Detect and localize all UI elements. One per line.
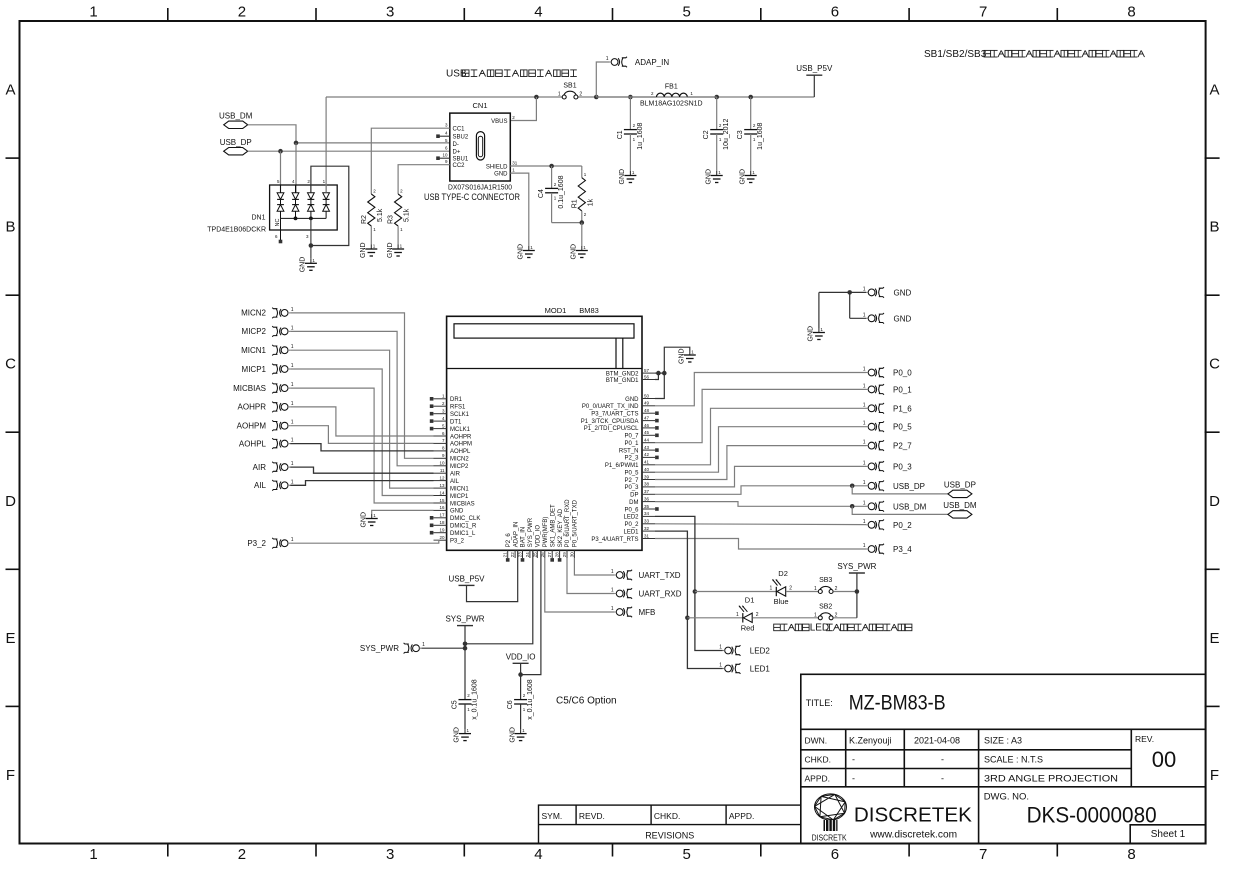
svg-text:1: 1 — [291, 401, 294, 407]
wire GND pin16 — [372, 510, 434, 514]
svg-text:A: A — [5, 82, 15, 99]
capacitor C6 — [514, 699, 527, 701]
svg-text:REVD.: REVD. — [579, 811, 605, 821]
svg-text:SBU2: SBU2 — [453, 135, 469, 141]
connector AOHPL — [272, 438, 288, 449]
svg-text:NC: NC — [275, 219, 281, 227]
svg-text:2: 2 — [579, 92, 582, 98]
svg-text:RST_N: RST_N — [619, 448, 639, 454]
wire USB_DP — [655, 486, 866, 495]
svg-text:1: 1 — [863, 367, 866, 373]
svg-text:18: 18 — [439, 520, 445, 525]
wire AOHPL to pin8 — [290, 444, 433, 451]
svg-text:41: 41 — [644, 460, 650, 465]
module MOD1 BM83 — [447, 316, 642, 550]
ground GND connectors — [818, 328, 820, 333]
svg-text:CN1: CN1 — [472, 101, 487, 110]
svg-text:1: 1 — [606, 56, 609, 62]
svg-text:F: F — [6, 767, 15, 784]
svg-text:2: 2 — [756, 612, 759, 618]
connector AIR — [272, 462, 288, 473]
svg-text:MICBIAS: MICBIAS — [450, 501, 475, 507]
svg-text:P0_5: P0_5 — [893, 423, 912, 432]
wire MICP2 to pin10 — [290, 331, 433, 465]
svg-text:1: 1 — [719, 645, 722, 651]
pin SBU2 no-connect stub — [440, 135, 450, 137]
connector MFB — [616, 607, 632, 618]
svg-text:39: 39 — [644, 474, 650, 479]
svg-text:00: 00 — [1152, 747, 1176, 772]
node VDD_IO junction — [518, 672, 523, 677]
svg-text:P0_0/UART_TX_IND: P0_0/UART_TX_IND — [582, 404, 639, 410]
wire USB_P5V to ADAP_IN pin — [467, 550, 518, 601]
svg-text:P0_3: P0_3 — [624, 485, 639, 491]
power flag VDD_IO — [513, 662, 529, 664]
svg-text:C4: C4 — [538, 189, 545, 198]
svg-text:46: 46 — [644, 423, 650, 428]
wire GND connectors — [819, 291, 866, 293]
wire CN1 GND pin — [510, 173, 529, 246]
wire SHIELD net — [510, 165, 582, 167]
ground C5 — [464, 729, 466, 734]
svg-text:DMIC1_L: DMIC1_L — [450, 531, 476, 537]
svg-text:1: 1 — [291, 382, 294, 388]
jumper SB1 — [562, 95, 566, 99]
svg-text:DWG. NO.: DWG. NO. — [984, 792, 1029, 803]
svg-text:48: 48 — [644, 408, 650, 413]
svg-text:1: 1 — [736, 612, 739, 618]
svg-text:8: 8 — [1127, 4, 1135, 21]
svg-text:4: 4 — [534, 846, 542, 863]
node C2 junction — [714, 95, 719, 100]
connector LED2 — [725, 645, 741, 656]
svg-text:P1_6: P1_6 — [893, 404, 912, 413]
svg-text:2: 2 — [238, 4, 246, 21]
node SYS_PWR junction B — [463, 646, 468, 651]
svg-text:28: 28 — [555, 552, 560, 558]
node LED1 junction — [685, 616, 690, 621]
svg-text:R1: R1 — [571, 199, 578, 208]
net flag USB_DM — [224, 121, 248, 128]
svg-text:6: 6 — [831, 4, 839, 21]
wire MICN2 to pin9 — [290, 313, 433, 458]
svg-text:P0_6/UART_RXD: P0_6/UART_RXD — [565, 499, 571, 548]
svg-text:50: 50 — [644, 393, 650, 398]
svg-text:C: C — [1209, 356, 1220, 373]
svg-text:BTM_GND1: BTM_GND1 — [606, 378, 639, 384]
svg-text:1: 1 — [814, 612, 817, 618]
svg-text:1: 1 — [89, 4, 97, 21]
svg-text:11: 11 — [440, 468, 445, 473]
wire USB_DM to DN1 — [295, 143, 297, 193]
resistor R2 — [371, 128, 450, 194]
svg-text:GND: GND — [894, 288, 912, 297]
net flag USB_DP right — [948, 490, 972, 497]
svg-text:DT1: DT1 — [450, 419, 462, 425]
connector USB_DP — [868, 481, 884, 492]
svg-text:AOHPL: AOHPL — [450, 449, 471, 455]
svg-text:DMIC_CLK: DMIC_CLK — [450, 516, 480, 522]
svg-text:P0_5/UART_TXD: P0_5/UART_TXD — [573, 499, 579, 547]
svg-text:20: 20 — [439, 535, 445, 540]
svg-text:P2_3: P2_3 — [624, 456, 639, 462]
svg-text:DM: DM — [629, 500, 638, 506]
TVS diode pair ch4 — [323, 193, 330, 200]
svg-text:BLM18AG102SN1D: BLM18AG102SN1D — [640, 101, 703, 108]
ground CN1 — [528, 246, 530, 251]
svg-text:7: 7 — [979, 846, 987, 863]
ground C1 — [629, 171, 631, 176]
resistor R3 — [398, 165, 450, 194]
node BTM_GND junction A — [656, 371, 661, 376]
wire AOHPR to pin6 — [290, 407, 433, 436]
module bottom pins — [507, 550, 509, 558]
wire USB_DM — [655, 502, 866, 507]
svg-text:LED1: LED1 — [750, 665, 771, 674]
svg-text:D2: D2 — [778, 569, 788, 578]
svg-text:AIR: AIR — [450, 472, 461, 478]
node VBUS junction — [534, 95, 539, 100]
svg-text:1k: 1k — [587, 198, 594, 206]
svg-text:VBUS: VBUS — [491, 119, 507, 125]
svg-text:USB_DM: USB_DM — [219, 112, 253, 121]
ground R1 — [581, 246, 583, 251]
svg-text:DISCRETEK: DISCRETEK — [854, 804, 972, 827]
power flag SYS_PWR LED — [849, 572, 865, 574]
svg-text:3: 3 — [386, 846, 394, 863]
svg-text:MICBIAS: MICBIAS — [233, 384, 266, 393]
svg-text:P3_2: P3_2 — [450, 539, 465, 545]
svg-text:R3: R3 — [388, 215, 395, 224]
svg-text:SYS_PWR: SYS_PWR — [837, 562, 876, 571]
svg-text:1: 1 — [863, 480, 866, 486]
wire VBUS to rail — [510, 97, 536, 121]
svg-text:D-: D- — [453, 142, 459, 148]
svg-text:APPD.: APPD. — [805, 774, 831, 784]
svg-text:LED2: LED2 — [623, 515, 639, 521]
svg-text:SYS_PWR: SYS_PWR — [528, 517, 534, 547]
wire AOHPM to pin7 — [290, 426, 433, 444]
svg-text:27: 27 — [547, 552, 552, 558]
svg-text:42: 42 — [644, 452, 650, 457]
svg-text:1: 1 — [863, 312, 866, 318]
svg-text:1: 1 — [291, 537, 294, 543]
node DN1 junction A — [294, 217, 298, 221]
wire P0_0 — [655, 373, 866, 406]
svg-text:12: 12 — [439, 475, 445, 480]
svg-text:1: 1 — [863, 543, 866, 549]
svg-text:MICN1: MICN1 — [450, 486, 469, 492]
node USB_DM junction — [850, 504, 855, 509]
svg-text:SB1: SB1 — [563, 83, 576, 90]
svg-text:GND: GND — [619, 169, 626, 185]
svg-text:GND: GND — [494, 172, 508, 178]
node USB_DP junction — [850, 484, 855, 489]
svg-text:MICP1: MICP1 — [450, 494, 469, 500]
svg-text:AOHPM: AOHPM — [237, 422, 267, 431]
title block — [801, 674, 1206, 843]
svg-text:2021-04-08: 2021-04-08 — [914, 736, 960, 746]
svg-text:SK1_AMB_DET: SK1_AMB_DET — [550, 504, 556, 547]
wire P0_2 — [655, 523, 866, 526]
svg-text:SYM.: SYM. — [542, 811, 563, 821]
svg-text:31: 31 — [512, 161, 518, 166]
node C4 junction — [549, 164, 554, 169]
svg-text:REVISIONS: REVISIONS — [645, 831, 694, 841]
svg-text:ADAP_IN: ADAP_IN — [635, 58, 669, 67]
svg-text:49: 49 — [644, 401, 650, 406]
node R1 bottom junction — [580, 220, 585, 225]
svg-text:R2: R2 — [361, 215, 368, 224]
wire 5V rail — [326, 96, 562, 98]
svg-text:GND: GND — [518, 244, 525, 260]
svg-text:1: 1 — [863, 402, 866, 408]
svg-text:47: 47 — [644, 415, 650, 420]
svg-text:RFS1: RFS1 — [450, 405, 466, 411]
svg-text:LED1: LED1 — [623, 529, 639, 535]
svg-text:F: F — [1210, 767, 1219, 784]
svg-text:ADAP_IN: ADAP_IN — [513, 522, 519, 548]
connector ADAP_IN — [611, 57, 627, 68]
svg-text:MICN1: MICN1 — [241, 346, 266, 355]
svg-text:AOHPM: AOHPM — [450, 442, 472, 448]
ground C2 — [716, 171, 718, 176]
ground C3 — [750, 171, 752, 176]
svg-text:www.discretek.com: www.discretek.com — [869, 829, 957, 840]
svg-text:C5: C5 — [452, 700, 459, 709]
wire DN1 pin3 to ground — [310, 218, 312, 258]
pin DN1 NC — [280, 218, 282, 240]
svg-text:CC2: CC2 — [453, 163, 466, 169]
connector GND 2 — [868, 313, 884, 324]
svg-text:VDD_IO: VDD_IO — [536, 525, 542, 548]
svg-text:SCLK1: SCLK1 — [450, 412, 470, 418]
svg-text:6: 6 — [831, 846, 839, 863]
svg-text:3RD ANGLE PROJECTION: 3RD ANGLE PROJECTION — [984, 774, 1118, 784]
connector GND 1 — [868, 287, 884, 298]
svg-text:17: 17 — [439, 513, 445, 518]
svg-text:36: 36 — [644, 496, 650, 501]
svg-text:SCALE : N.T.S: SCALE : N.T.S — [984, 755, 1043, 765]
svg-text:21: 21 — [503, 552, 508, 558]
svg-text:44: 44 — [644, 438, 650, 443]
svg-text:SYS_PWR: SYS_PWR — [445, 615, 484, 624]
svg-text:13: 13 — [439, 483, 445, 488]
svg-text:MICP2: MICP2 — [242, 327, 267, 336]
svg-text:-: - — [852, 755, 855, 765]
svg-text:1: 1 — [863, 286, 866, 292]
svg-text:Blue: Blue — [774, 597, 789, 606]
svg-text:7: 7 — [979, 4, 987, 21]
svg-text:D+: D+ — [453, 150, 461, 156]
module left pins — [434, 398, 447, 400]
svg-text:P1_3/TCK_CPU/SDA: P1_3/TCK_CPU/SDA — [581, 419, 639, 425]
svg-text:GND: GND — [894, 314, 912, 323]
svg-text:1: 1 — [863, 460, 866, 466]
svg-text:GND: GND — [808, 326, 815, 342]
module BTM_GND pins — [642, 372, 655, 374]
connector P0_3 — [868, 461, 884, 472]
svg-text:A: A — [1209, 82, 1219, 99]
wire ADAP_IN riser — [596, 62, 609, 97]
svg-text:REV.: REV. — [1135, 734, 1154, 744]
svg-text:P2_7: P2_7 — [893, 442, 912, 451]
svg-text:3: 3 — [386, 4, 394, 21]
connector P0_1 — [868, 384, 884, 395]
svg-text:DP: DP — [630, 493, 638, 499]
wire USB_DP to DN1 — [280, 151, 282, 193]
wire AIR to pin11 — [290, 467, 433, 473]
svg-text:MCLK1: MCLK1 — [450, 427, 471, 433]
capacitor C5 — [459, 699, 472, 701]
connector LED1 — [725, 663, 741, 674]
connector P0_0 — [868, 367, 884, 378]
svg-text:1: 1 — [291, 479, 294, 485]
svg-text:B: B — [1209, 219, 1219, 236]
jumper SB2 — [818, 616, 822, 620]
svg-text:DN1: DN1 — [251, 215, 265, 222]
svg-text:MICN2: MICN2 — [450, 457, 469, 463]
svg-text:1: 1 — [611, 606, 614, 612]
svg-text:E: E — [5, 630, 15, 647]
wire MICP1 to pin14 — [290, 369, 433, 496]
module divider — [447, 368, 642, 370]
svg-text:15: 15 — [439, 498, 445, 503]
svg-text:B: B — [5, 219, 15, 236]
ground module GND pin — [371, 514, 373, 519]
svg-text:TPD4E1B06DCKR: TPD4E1B06DCKR — [207, 227, 266, 234]
svg-text:USB_DM: USB_DM — [943, 501, 977, 510]
svg-text:E: E — [1209, 630, 1219, 647]
wire P0_1 — [655, 389, 866, 442]
module right pins — [642, 538, 655, 540]
capacitor C4 — [551, 166, 553, 188]
svg-text:GND: GND — [679, 348, 686, 364]
node SB1 output junction — [594, 95, 599, 100]
svg-text:1: 1 — [291, 344, 294, 350]
wire UART_RXD — [567, 558, 614, 594]
svg-text:AOHPL: AOHPL — [239, 439, 267, 448]
ground DN1 — [310, 259, 312, 264]
svg-text:1: 1 — [558, 92, 561, 98]
svg-text:P2_7: P2_7 — [624, 478, 639, 484]
svg-text:AOHPR: AOHPR — [238, 403, 267, 412]
svg-text:BAT_IN: BAT_IN — [521, 527, 527, 548]
svg-text:LED2: LED2 — [750, 647, 771, 656]
svg-text:AIR: AIR — [253, 463, 267, 472]
svg-text:x_0.1u_1608: x_0.1u_1608 — [472, 679, 479, 720]
net flag USB_DP — [224, 148, 248, 155]
svg-text:1: 1 — [863, 440, 866, 446]
svg-text:P0_1: P0_1 — [624, 441, 639, 447]
wire D2 row — [695, 591, 776, 593]
svg-text:SB2: SB2 — [819, 603, 832, 610]
svg-text:GND: GND — [509, 727, 516, 743]
connector P3_2 — [272, 538, 288, 549]
connector MICN2 — [272, 308, 288, 319]
wire DN1 common cathode — [281, 217, 327, 219]
ground BTM_GND — [689, 351, 691, 356]
svg-text:1: 1 — [89, 846, 97, 863]
svg-text:x_0.1u_1608: x_0.1u_1608 — [527, 679, 534, 720]
svg-text:PWR(MFB): PWR(MFB) — [543, 517, 549, 548]
node DN1 junction B — [309, 217, 313, 221]
svg-text:1: 1 — [863, 519, 866, 525]
svg-text:P3_7/UART_CTS: P3_7/UART_CTS — [591, 412, 638, 418]
svg-text:USB_DM: USB_DM — [893, 502, 927, 511]
svg-text:SB3: SB3 — [819, 577, 832, 584]
wire P1_6 — [655, 408, 866, 465]
svg-text:CC1: CC1 — [453, 127, 466, 133]
svg-text:4: 4 — [534, 4, 542, 21]
svg-text:APPD.: APPD. — [729, 811, 755, 821]
svg-text:MICP1: MICP1 — [242, 365, 267, 374]
svg-text:-: - — [852, 774, 855, 784]
LED D2 blue — [775, 587, 777, 596]
svg-text:43: 43 — [644, 445, 650, 450]
node C3 junction — [748, 95, 753, 100]
svg-text:P0_2: P0_2 — [624, 522, 639, 528]
svg-text:8: 8 — [1127, 846, 1135, 863]
connector P2_7 — [868, 440, 884, 451]
svg-text:10u_2012: 10u_2012 — [723, 119, 730, 150]
wire LED2 net — [655, 516, 723, 650]
wire AIL to pin12 — [290, 481, 433, 486]
svg-text:32: 32 — [644, 526, 650, 531]
ground C6 — [520, 729, 522, 734]
svg-text:UART_RXD: UART_RXD — [639, 590, 682, 599]
antenna area — [454, 324, 634, 338]
wire P0_5 — [655, 427, 866, 473]
node SYS_PWR junction A — [463, 642, 468, 647]
ferrite bead FB1 — [596, 96, 656, 98]
pin SBU1 no-connect stub — [440, 157, 450, 159]
svg-text:29: 29 — [562, 552, 567, 558]
svg-text:DISCRETK: DISCRETK — [812, 834, 848, 843]
wire MFB — [545, 558, 614, 612]
svg-text:56: 56 — [644, 374, 650, 379]
resistor R1 — [581, 166, 583, 178]
svg-text:MICN2: MICN2 — [241, 309, 266, 318]
svg-text:GND: GND — [300, 257, 307, 273]
svg-text:5.1k: 5.1k — [377, 208, 384, 222]
connector USB_DM — [868, 501, 884, 512]
svg-text:19: 19 — [439, 528, 445, 533]
svg-text:P0_0: P0_0 — [893, 369, 912, 378]
wire P0_3 — [655, 466, 866, 487]
wire P3_2 to pin20 — [290, 540, 439, 543]
svg-text:MOD1: MOD1 — [545, 306, 567, 315]
svg-text:33: 33 — [644, 519, 650, 524]
svg-text:AOHPR: AOHPR — [450, 434, 472, 440]
svg-text:DWN.: DWN. — [805, 736, 828, 746]
svg-text:C6: C6 — [507, 700, 514, 709]
svg-text:1u_1608: 1u_1608 — [637, 122, 644, 149]
connector UART_TXD — [616, 570, 632, 581]
ESD diode array DN1 TPD4E1B06DCKR — [270, 185, 338, 230]
svg-text:MICP2: MICP2 — [450, 464, 469, 470]
svg-text:GND: GND — [387, 242, 394, 258]
svg-text:P3_4/UART_RTS: P3_4/UART_RTS — [591, 537, 638, 543]
svg-text:P0_2: P0_2 — [893, 521, 912, 530]
svg-text:GND: GND — [450, 509, 464, 515]
svg-text:5.1k: 5.1k — [404, 208, 411, 222]
svg-text:SB1/SB2/SB3: SB1/SB2/SB3 — [924, 49, 987, 60]
power flag USB_P5V bottom — [459, 584, 475, 586]
svg-text:2: 2 — [238, 846, 246, 863]
TVS diode pair ch3 — [308, 193, 315, 200]
svg-text:USB_P5V: USB_P5V — [796, 64, 833, 73]
